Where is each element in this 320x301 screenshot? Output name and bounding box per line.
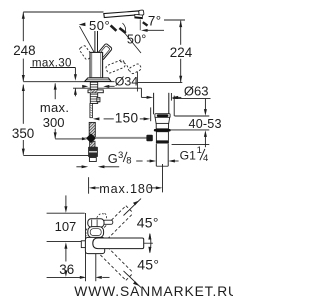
svg-text:36: 36 bbox=[59, 262, 74, 277]
svg-text:3: 3 bbox=[118, 150, 123, 161]
svg-text:50°: 50° bbox=[89, 18, 110, 33]
svg-text:G: G bbox=[108, 151, 118, 166]
svg-text:Ø34: Ø34 bbox=[115, 75, 139, 89]
svg-text:45°: 45° bbox=[137, 214, 159, 230]
svg-text:1: 1 bbox=[197, 145, 202, 156]
svg-text:45°: 45° bbox=[137, 257, 159, 273]
svg-text:7°: 7° bbox=[148, 14, 162, 29]
svg-text:Ø63: Ø63 bbox=[184, 83, 209, 98]
svg-text:107: 107 bbox=[55, 219, 77, 234]
svg-text:350: 350 bbox=[12, 126, 34, 141]
svg-text:max.: max. bbox=[40, 100, 69, 115]
svg-text:300: 300 bbox=[43, 115, 65, 130]
svg-text:8: 8 bbox=[126, 155, 131, 166]
svg-text:224: 224 bbox=[170, 45, 193, 60]
svg-text:WWW.SANMARKET.RU: WWW.SANMARKET.RU bbox=[74, 284, 233, 299]
svg-text:40-53: 40-53 bbox=[189, 117, 222, 131]
svg-text:150: 150 bbox=[115, 111, 139, 126]
svg-text:max.30: max.30 bbox=[32, 56, 72, 69]
svg-text:G1: G1 bbox=[180, 149, 196, 163]
svg-text:4: 4 bbox=[203, 153, 208, 164]
svg-text:max.180: max.180 bbox=[99, 182, 153, 196]
